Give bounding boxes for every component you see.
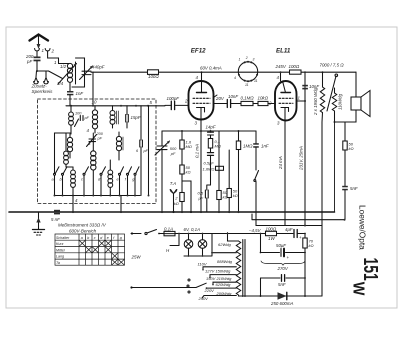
svg-text:231V, 25mA: 231V, 25mA xyxy=(299,146,304,171)
wire top rail xyxy=(93,71,356,73)
wire bias mid xyxy=(277,233,294,235)
svg-text:100Ω: 100Ω xyxy=(148,74,159,79)
EF12 grid 1 xyxy=(193,97,210,99)
svg-text:7000 / 7,5 Ω: 7000 / 7,5 Ω xyxy=(320,63,345,68)
svg-text:60V 0,4mA: 60V 0,4mA xyxy=(200,66,222,71)
svg-text:4μF: 4μF xyxy=(285,227,293,232)
switch c xyxy=(83,167,89,196)
wire bias left vert xyxy=(260,234,262,253)
resistor 50kohm output xyxy=(343,122,347,186)
capacitor 5nF psu xyxy=(261,275,306,296)
coil L3 xyxy=(92,106,97,133)
capacitor screen bypass xyxy=(208,153,214,185)
wire 62Wdg tap xyxy=(212,252,236,254)
fuse 0,1A xyxy=(164,231,248,235)
resistor 1Mohm xyxy=(236,131,240,212)
wire tuning feed down xyxy=(92,72,94,106)
tap 110V xyxy=(203,267,236,270)
svg-text:kΩ: kΩ xyxy=(186,170,191,175)
wire osc row xyxy=(162,130,256,132)
X Mittel e xyxy=(106,247,111,252)
svg-text:c: c xyxy=(94,236,96,240)
capacitor 0,5uF lower xyxy=(205,185,210,212)
svg-text:pF: pF xyxy=(170,151,176,156)
svg-text:1/2: 1/2 xyxy=(60,64,67,69)
svg-text:240V: 240V xyxy=(198,296,209,301)
wire B+ vertical 231V xyxy=(304,72,306,225)
tube socket diagram xyxy=(238,61,258,82)
EL11 anode xyxy=(281,72,291,92)
svg-text:200Wdg: 200Wdg xyxy=(216,291,233,296)
variable capacitor 500pF xyxy=(155,131,170,212)
svg-text:127V 150Wdg: 127V 150Wdg xyxy=(205,268,231,273)
node rail 322 xyxy=(322,71,324,73)
svg-text:245V: 245V xyxy=(275,64,287,69)
svg-text:Zusatz-: Zusatz- xyxy=(31,84,48,89)
EL11 grid 2 xyxy=(279,102,293,104)
resistor 100ohm EL11 anode xyxy=(290,70,302,74)
svg-text:5nF: 5nF xyxy=(278,282,286,287)
svg-text:220V: 220V xyxy=(204,288,215,293)
wire EF12 bottom to node xyxy=(200,120,202,132)
svg-text:μF: μF xyxy=(198,196,204,201)
coil L2 xyxy=(69,106,79,134)
svg-text:–4,5V: –4,5V xyxy=(248,228,262,233)
resistor 50kohm xyxy=(180,165,184,193)
wire heater tap H xyxy=(170,233,180,246)
switch d xyxy=(100,167,106,196)
resistor 0,1Mohm xyxy=(241,101,253,105)
selector arm xyxy=(130,283,207,289)
capacitor 5nF chassis xyxy=(54,210,60,215)
node 62wdg tap xyxy=(211,252,213,254)
wire fork left xyxy=(35,71,38,77)
svg-text:1,6MΩ: 1,6MΩ xyxy=(203,167,215,172)
wire bias rail xyxy=(247,233,266,235)
svg-text:pF: pF xyxy=(84,116,90,120)
capacitor 100pF grid xyxy=(165,101,175,109)
svg-text:110Wdg: 110Wdg xyxy=(338,93,343,110)
chassis bus xyxy=(9,211,335,213)
EL11 cathode xyxy=(281,108,289,112)
brace 270V xyxy=(261,261,305,266)
lamp 1 xyxy=(184,233,193,256)
capacitor 1nF volume xyxy=(253,131,259,170)
resistor 10kohm xyxy=(258,101,268,105)
svg-text:151: 151 xyxy=(359,258,382,282)
tube EF12 envelope xyxy=(189,81,214,120)
svg-text:EL11: EL11 xyxy=(276,48,291,55)
resistor 1,6Mohm xyxy=(180,131,184,165)
dashed coil box xyxy=(38,99,157,204)
trimmer 200pF xyxy=(87,135,97,147)
svg-text:2: 2 xyxy=(184,99,188,104)
svg-text:e: e xyxy=(107,236,109,240)
resistor 2kohm xyxy=(180,193,184,213)
EL11 cathode lead xyxy=(284,108,286,121)
svg-text:T.A: T.A xyxy=(170,181,176,186)
wire primary B+ down xyxy=(321,122,323,296)
svg-text:pF: pF xyxy=(97,137,103,141)
coil L7 xyxy=(64,151,73,167)
svg-text:440pF: 440pF xyxy=(92,65,105,70)
wire heater bottom rail xyxy=(184,234,212,257)
svg-text:100Ω: 100Ω xyxy=(289,64,300,69)
svg-text:62Wdg: 62Wdg xyxy=(218,242,231,247)
node box bus xyxy=(54,195,56,197)
terminal fork left xyxy=(34,78,39,84)
EF12 cathode lead down xyxy=(200,108,202,120)
svg-text:5nF: 5nF xyxy=(350,186,358,191)
node grid bus xyxy=(70,105,72,107)
svg-text:6V, 0,1A: 6V, 0,1A xyxy=(184,227,201,232)
node bus xyxy=(72,211,74,213)
svg-text:0,1A: 0,1A xyxy=(164,227,173,232)
switch antenna xyxy=(49,71,63,79)
terminal fork right xyxy=(44,78,49,84)
svg-text:110V: 110V xyxy=(198,261,207,266)
svg-text:pF: pF xyxy=(26,59,32,64)
switch g xyxy=(134,167,139,196)
speaker xyxy=(351,91,370,117)
wire box exit mid xyxy=(120,196,122,213)
rectifier diode xyxy=(278,292,287,299)
svg-text:1MΩ: 1MΩ xyxy=(243,144,253,149)
resistor R 100ohm anode EF12 xyxy=(148,70,159,75)
svg-text:Ta: Ta xyxy=(56,261,60,265)
wire box bus xyxy=(55,195,141,197)
wire winding top feed xyxy=(228,233,239,241)
svg-text:10kΩ: 10kΩ xyxy=(258,96,269,101)
wire feedback rail xyxy=(252,214,345,220)
table Messinstrument xyxy=(55,234,125,265)
svg-text:100Ω: 100Ω xyxy=(266,227,277,232)
power transformer winding xyxy=(236,241,240,295)
node antenna junction xyxy=(36,70,38,72)
wire to switch xyxy=(37,70,49,72)
svg-text:a: a xyxy=(81,236,83,240)
svg-text:0,1MΩ: 0,1MΩ xyxy=(241,96,255,101)
resistor 0,1Mohm screen xyxy=(208,139,212,153)
transformer core lines xyxy=(243,240,245,297)
antenna terminal 2 xyxy=(45,49,50,51)
svg-text:Loewe/Opta: Loewe/Opta xyxy=(357,205,367,250)
EL11 grid 1 xyxy=(279,97,293,99)
svg-text:b: b xyxy=(87,236,89,240)
svg-text:Mittel: Mittel xyxy=(56,248,65,252)
coil L6 xyxy=(116,132,123,160)
svg-text:4: 4 xyxy=(234,76,236,80)
wire speaker bottom xyxy=(335,110,357,122)
X Lang f xyxy=(112,253,117,258)
node mains end xyxy=(131,232,133,234)
wire HT bottom rail xyxy=(239,295,323,298)
switch g2 xyxy=(254,171,259,226)
wire fork right xyxy=(37,71,46,77)
svg-text:Lang: Lang xyxy=(56,255,64,259)
switch mains xyxy=(131,230,164,235)
svg-text:1nF: 1nF xyxy=(261,144,269,149)
svg-text:100pF: 100pF xyxy=(167,96,180,101)
svg-text:10nF: 10nF xyxy=(228,94,238,99)
wire screen 20V stub xyxy=(214,95,218,98)
svg-text:20V: 20V xyxy=(215,96,225,101)
svg-text:5 nF: 5 nF xyxy=(51,217,60,222)
svg-text:kΩ: kΩ xyxy=(174,201,179,206)
coil L9 xyxy=(71,167,76,196)
svg-text:2 x 1950 Wdg: 2 x 1950 Wdg xyxy=(313,87,318,116)
svg-text:1nF: 1nF xyxy=(76,91,84,96)
resistor 70kohm xyxy=(303,234,307,297)
wire 0,1mA line xyxy=(200,131,202,212)
wire cathode corner xyxy=(182,181,191,212)
svg-text:Kurz: Kurz xyxy=(56,242,64,246)
svg-text:888Wdg: 888Wdg xyxy=(217,259,233,264)
tube EL11 envelope xyxy=(275,81,297,121)
node EL11 anode rail xyxy=(280,71,282,73)
EF12 grid 2 xyxy=(193,102,210,104)
wire grid bus in box xyxy=(66,105,165,107)
capacitor 10nF tone xyxy=(302,85,308,90)
X Kurz a xyxy=(80,241,85,246)
wire terminal2 down xyxy=(48,51,59,64)
wire bus corner up secondary xyxy=(334,111,336,212)
coil L1 Sperrkreis xyxy=(58,58,85,91)
svg-text:600V-Bereich: 600V-Bereich xyxy=(69,229,97,234)
tap 620 xyxy=(207,287,237,289)
tap 127V xyxy=(210,275,236,277)
X Mittel c xyxy=(93,247,98,252)
svg-text:270V: 270V xyxy=(277,266,289,271)
svg-text:1/4: 1/4 xyxy=(57,81,64,86)
svg-text:2: 2 xyxy=(268,101,272,106)
svg-text:Schalter: Schalter xyxy=(56,236,70,240)
svg-text:2: 2 xyxy=(245,56,248,60)
trimmer 15pF xyxy=(126,106,129,128)
svg-text:c: c xyxy=(81,177,83,182)
EF12 cathode xyxy=(197,108,205,113)
svg-text:kΩ: kΩ xyxy=(223,195,228,200)
wire 24mA line xyxy=(284,121,286,226)
coil L5 xyxy=(67,134,72,158)
TA pickup jack xyxy=(170,189,177,212)
resistor parallel small box xyxy=(216,166,224,170)
svg-text:EF12: EF12 xyxy=(191,47,206,54)
svg-text:620Wdg: 620Wdg xyxy=(216,282,232,287)
svg-text:1: 1 xyxy=(239,58,241,62)
svg-text:0,1 mA: 0,1 mA xyxy=(195,144,200,158)
resistor 100ohm 1W xyxy=(266,231,277,235)
switch e xyxy=(119,167,124,196)
output transformer primary xyxy=(320,72,324,122)
capacitor 200pF xyxy=(34,51,41,71)
svg-text:250 600mA: 250 600mA xyxy=(270,301,294,306)
resistor 50kohm lower B xyxy=(227,150,231,212)
node osc row xyxy=(181,130,183,132)
svg-text:pF: pF xyxy=(143,149,149,153)
svg-text:11: 11 xyxy=(245,83,249,87)
svg-text:14pF: 14pF xyxy=(206,125,216,130)
svg-text:2: 2 xyxy=(51,49,55,54)
svg-text:kΩ: kΩ xyxy=(309,243,314,248)
switch b xyxy=(62,167,68,196)
wire mains rail 2 xyxy=(256,225,322,227)
transformer core xyxy=(327,74,338,111)
svg-text:W: W xyxy=(349,282,367,296)
node pin7 xyxy=(304,100,306,102)
wire box exit left xyxy=(72,196,74,213)
variable capacitor 440pF xyxy=(80,66,94,80)
wire EL11 pin7 xyxy=(297,100,306,102)
svg-text:+: + xyxy=(299,235,302,240)
X Kurz d xyxy=(99,241,104,246)
tap 150V xyxy=(213,282,236,284)
svg-text:150V 210Wdg: 150V 210Wdg xyxy=(206,276,232,281)
svg-text:15pF: 15pF xyxy=(131,115,141,120)
svg-text:50μF: 50μF xyxy=(276,243,286,248)
tap 240V xyxy=(202,296,236,299)
EF12 anode plate xyxy=(197,72,207,92)
coil L4 IF pair xyxy=(110,106,118,128)
svg-text:g: g xyxy=(120,236,122,240)
trimmer cap 100pF xyxy=(80,116,83,121)
svg-text:11: 11 xyxy=(254,79,258,83)
coil L10 xyxy=(108,160,113,196)
svg-text:Sperrkreis: Sperrkreis xyxy=(32,89,54,94)
wire box right column xyxy=(148,106,150,196)
svg-text:MΩ: MΩ xyxy=(186,144,192,149)
svg-text:200: 200 xyxy=(96,132,104,136)
antenna xyxy=(30,35,49,50)
svg-text:MΩ: MΩ xyxy=(215,144,221,149)
capacitor 14pF xyxy=(208,131,214,139)
switch a xyxy=(54,167,60,196)
svg-text:Meßinstrument 333Ω /V: Meßinstrument 333Ω /V xyxy=(58,223,107,228)
output transformer secondary xyxy=(332,88,336,122)
X Mittel b xyxy=(86,247,91,252)
svg-text:0,5μF: 0,5μF xyxy=(204,161,215,166)
switch f xyxy=(127,167,132,196)
resistor 50kohm lower A xyxy=(217,131,221,212)
X Ta f xyxy=(112,260,117,265)
svg-text:kΩ: kΩ xyxy=(349,146,354,151)
wire L7 top link xyxy=(55,133,72,173)
capacitor 10nF coupling xyxy=(227,100,230,108)
svg-text:25W: 25W xyxy=(131,255,142,260)
X Ta g xyxy=(119,260,124,265)
wire EF12 grid lead xyxy=(176,104,189,106)
X Kurz e xyxy=(106,241,111,246)
node rail 305 xyxy=(304,71,306,73)
svg-text:3: 3 xyxy=(253,58,255,62)
svg-text:+: + xyxy=(287,255,290,260)
ground xyxy=(33,212,45,235)
svg-text:1W: 1W xyxy=(268,236,275,241)
node speaker return xyxy=(334,121,336,123)
svg-text:kΩ: kΩ xyxy=(233,193,238,198)
capacitor 4uF xyxy=(294,230,306,238)
capacitor 1nF antenna xyxy=(67,91,73,106)
selector idle contacts xyxy=(187,279,190,293)
wire 6pF drop xyxy=(140,168,142,196)
capacitor 50uF xyxy=(260,249,306,257)
antenna terminal 1 xyxy=(35,49,40,51)
coil L8 xyxy=(91,133,96,196)
wire EF12 anode coupling row xyxy=(214,103,276,105)
svg-text:24 mA: 24 mA xyxy=(278,156,283,170)
capacitor 5nF output xyxy=(342,186,348,220)
node mains rail xyxy=(304,225,306,227)
node feedback xyxy=(344,219,346,221)
wire speaker top xyxy=(355,72,357,97)
node EF12 anode xyxy=(201,71,203,73)
svg-text:100: 100 xyxy=(75,112,82,116)
trimmer 6pF xyxy=(140,106,143,168)
lamp 2 xyxy=(198,233,207,256)
svg-text:10: 10 xyxy=(92,100,97,105)
